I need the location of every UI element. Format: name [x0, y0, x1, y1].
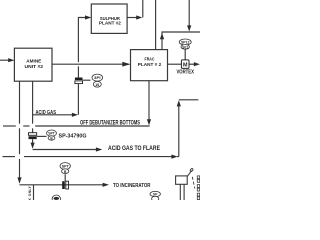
arrow acid gas to flare label — [96, 147, 102, 151]
svg-text:16: 16 — [95, 83, 99, 87]
svg-text:SPT: SPT — [62, 164, 70, 168]
wire sulphur plant outlet — [127, 17, 137, 19]
wire off debutanizer bottoms header — [3, 125, 16, 127]
instrument bubble SPT/B incinerator — [60, 163, 70, 174]
svg-text:OFF DEBUTANIZER BOTTOMS: OFF DEBUTANIZER BOTTOMS — [80, 120, 140, 126]
svg-text:VORTEX: VORTEX — [176, 69, 194, 75]
instrument bubble SP12/S01 vortex — [179, 39, 191, 49]
wire amine outlet 1 — [19, 81, 21, 124]
wire amine inlet — [0, 59, 9, 61]
svg-text:PLANT #2: PLANT #2 — [99, 21, 121, 26]
arrow down amine outlet 1 — [17, 177, 21, 183]
svg-text:ACID GAS: ACID GAS — [36, 110, 57, 116]
svg-text:TO INCINERATOR: TO INCINERATOR — [113, 183, 151, 189]
vortex meter M — [181, 60, 189, 69]
orifice valve FE1 on sulphur riser — [75, 78, 83, 84]
wire frac overhead riser — [162, 32, 200, 50]
svg-text:SP-34790G: SP-34790G — [59, 134, 87, 140]
wire flare header — [3, 156, 16, 158]
svg-text:3PI: 3PI — [94, 76, 101, 80]
wire amine to frac — [52, 63, 123, 65]
svg-text:SP12: SP12 — [181, 40, 190, 44]
instrument bubble clipped bottom center-right — [150, 191, 160, 201]
right edge clipped marks — [197, 176, 199, 200]
arrow down on vertical D — [187, 25, 191, 31]
svg-text:K ONLY: K ONLY — [28, 186, 32, 200]
arrow vortex outlet right — [194, 62, 200, 66]
arrow up on frac overhead riser — [160, 33, 164, 39]
svg-text:AMINE: AMINE — [26, 59, 42, 65]
wire acid gas to flare stub — [33, 149, 96, 151]
wire k-only branch — [33, 185, 35, 200]
arrow down amine outlet 2 — [31, 143, 35, 149]
wire vortex outlet — [189, 63, 194, 65]
instrument bubble SPT/B — [47, 130, 57, 141]
arrow up on flare riser — [177, 100, 181, 106]
wire bubble1 tap — [83, 79, 91, 81]
svg-text:SPT: SPT — [48, 132, 55, 136]
instrument bubble 3PI/16 — [92, 74, 103, 87]
box SULPHUR PLANT #2 — [91, 4, 127, 33]
arrow right on acid gas branch — [72, 113, 78, 117]
arrow into amine unit — [8, 58, 14, 62]
svg-text:S01: S01 — [182, 45, 188, 49]
wire bubble2 tap — [37, 135, 47, 137]
svg-text:M: M — [183, 62, 188, 68]
arrow into frac plant — [122, 62, 130, 67]
flare pilot tip — [187, 171, 191, 177]
wire vertical A top — [142, 0, 144, 18]
flare guy wire dashed — [192, 177, 195, 189]
arrow right on flare header — [171, 155, 177, 159]
flare stack — [176, 168, 195, 200]
wire amine outlet 2 — [32, 81, 34, 124]
wire bubble3 tap — [64, 174, 66, 181]
wire acid gas riser to sulphur plant — [77, 84, 79, 115]
wire frac bottoms outlet — [148, 81, 150, 120]
wire vortex bubble tap — [184, 49, 186, 60]
orifice valve on incinerator line — [62, 181, 68, 189]
arrow sulphur outlet to vertical A — [136, 15, 142, 19]
wire incinerator line — [20, 184, 104, 186]
svg-text:FRAC: FRAC — [145, 57, 155, 63]
svg-text:ACID GAS TO FLARE: ACID GAS TO FLARE — [108, 145, 160, 152]
orifice valve on acid gas drop — [29, 133, 37, 139]
box FRAC PLANT #2 — [131, 50, 168, 81]
arrow incinerator line — [103, 183, 109, 187]
box AMINE UNIT #2 — [14, 48, 52, 81]
instrument bubble clipped bottom left — [52, 195, 60, 203]
arrow down frac bottoms — [147, 119, 151, 125]
wire vertical D top right — [188, 0, 190, 26]
wire vertical B to frac top — [155, 0, 157, 50]
wire frac to vortex meter — [168, 63, 182, 65]
arrow into sulphur plant — [85, 15, 91, 19]
wire acid gas branch — [33, 114, 73, 116]
svg-text:UNIT #2: UNIT #2 — [25, 64, 44, 70]
svg-text:SP: SP — [153, 192, 158, 196]
svg-text:PLANT # 2: PLANT # 2 — [138, 62, 162, 68]
